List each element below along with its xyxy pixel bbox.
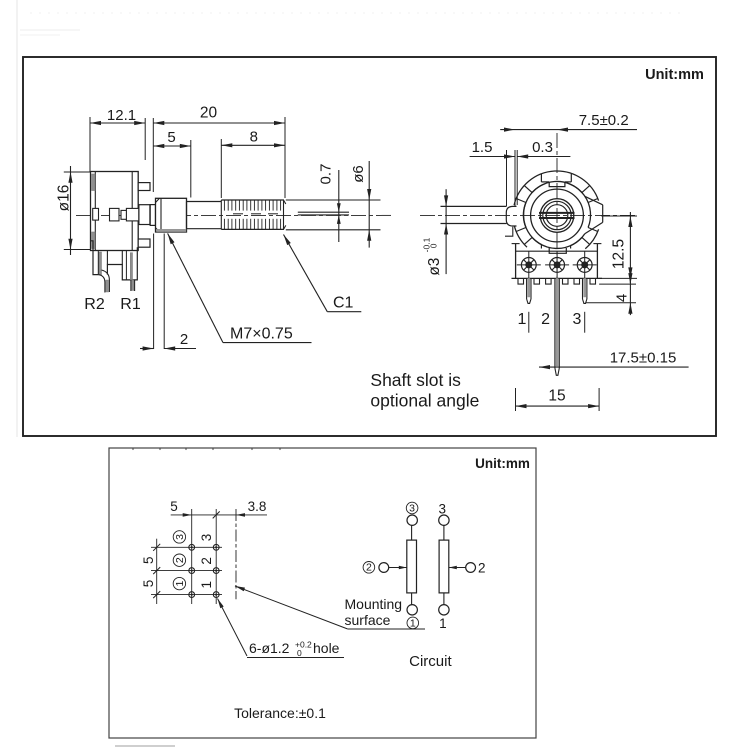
bushing bottom shading bbox=[157, 229, 187, 232]
svg-text:2: 2 bbox=[541, 311, 550, 328]
svg-text:0.3: 0.3 bbox=[532, 139, 553, 156]
drawing frame bottom panel bbox=[109, 448, 536, 738]
step below bump bbox=[505, 227, 513, 236]
dim 7.5 bbox=[500, 129, 637, 131]
pin R2 gray bar bbox=[99, 252, 102, 275]
svg-text:C1: C1 bbox=[333, 295, 354, 312]
svg-text:0: 0 bbox=[297, 648, 302, 658]
svg-text:3: 3 bbox=[438, 502, 446, 517]
rod phi3 bbox=[441, 205, 507, 207]
pcb column centerline 1 bbox=[191, 509, 193, 604]
dim 5 bbox=[153, 145, 191, 147]
rivets bbox=[517, 251, 597, 278]
dim phi16 bbox=[70, 166, 72, 255]
svg-text:12.5: 12.5 bbox=[611, 239, 628, 269]
knurl end chamfer bbox=[283, 200, 285, 229]
top tab walls and floor bbox=[540, 174, 542, 182]
dim 4 bbox=[629, 276, 631, 316]
svg-text:5: 5 bbox=[167, 129, 175, 146]
svg-text:3.8: 3.8 bbox=[248, 499, 267, 514]
svg-text:3: 3 bbox=[409, 502, 415, 514]
svg-text:2: 2 bbox=[199, 557, 214, 565]
interior hub small rects bbox=[110, 208, 120, 221]
svg-text:4: 4 bbox=[614, 294, 631, 302]
pin R1 gray bar bbox=[130, 253, 132, 280]
svg-text:M7×0.75: M7×0.75 bbox=[230, 326, 293, 343]
svg-text:2: 2 bbox=[180, 331, 188, 348]
shaft diameter extension lines bbox=[286, 199, 381, 201]
bushing chamfers bbox=[156, 198, 160, 202]
leader M7x0.75 bbox=[168, 233, 223, 342]
left small tab bbox=[93, 208, 99, 220]
svg-text:Tolerance:±0.1: Tolerance:±0.1 bbox=[234, 705, 326, 721]
potentiometer body side view bbox=[91, 172, 139, 251]
faint artifact bottom-left text smudge bbox=[115, 745, 175, 747]
dim 8 bbox=[221, 144, 285, 146]
svg-text:optional angle: optional angle bbox=[370, 391, 479, 411]
svg-text:5: 5 bbox=[141, 556, 156, 564]
svg-text:R2: R2 bbox=[84, 296, 105, 313]
horizontal centerline front view bbox=[420, 214, 637, 216]
body seam left bbox=[94, 172, 96, 251]
svg-text:surface: surface bbox=[345, 612, 391, 628]
circled pin numbers pcb bbox=[173, 531, 185, 543]
wiper 2 right bbox=[466, 563, 476, 573]
top small tab rect bbox=[549, 182, 565, 187]
dim phi6 bbox=[368, 161, 370, 248]
drawing frame top panel bbox=[23, 57, 716, 436]
mounting surface label and leader bbox=[235, 586, 348, 629]
inner concentric circles bbox=[531, 189, 584, 242]
svg-text:3: 3 bbox=[199, 534, 214, 542]
circled 3 circuit bbox=[406, 502, 418, 514]
bottom small tab bbox=[549, 248, 566, 253]
svg-text:1: 1 bbox=[410, 617, 416, 629]
lower-right lug bbox=[138, 239, 150, 247]
circuit terminals right resistor bbox=[439, 515, 449, 525]
extension lines front top bbox=[506, 150, 508, 206]
svg-text:12.1: 12.1 bbox=[107, 107, 136, 124]
left bump bbox=[506, 206, 516, 226]
svg-text:3: 3 bbox=[573, 311, 582, 328]
knurl middle hidden dashes bbox=[233, 213, 243, 215]
svg-text:5: 5 bbox=[141, 580, 156, 588]
dim 0.3 bbox=[517, 156, 570, 158]
svg-text:2: 2 bbox=[174, 557, 186, 563]
shaft hub inner rect bbox=[126, 208, 138, 221]
svg-text:hole: hole bbox=[313, 640, 340, 656]
svg-text:7.5±0.2: 7.5±0.2 bbox=[579, 112, 629, 129]
wiper 2 left bbox=[363, 562, 375, 574]
serration top line bbox=[512, 277, 603, 279]
svg-text:17.5±0.15: 17.5±0.15 bbox=[610, 350, 677, 367]
extension lines top dims bbox=[89, 117, 91, 172]
dim 17.5 bbox=[539, 366, 689, 368]
faint artifact dots below top box bbox=[132, 448, 281, 450]
bottom tab walls bbox=[540, 245, 542, 249]
svg-text:-0.1: -0.1 bbox=[422, 237, 432, 252]
hole callout leader bbox=[218, 599, 248, 657]
pin 3 front bbox=[582, 278, 584, 299]
faint artifact left edge line bbox=[16, 0, 18, 437]
bushing M7 threaded section bbox=[156, 198, 187, 232]
svg-text:Unit:mm: Unit:mm bbox=[645, 67, 704, 83]
centerline side view bbox=[76, 214, 394, 216]
svg-text:1: 1 bbox=[199, 581, 214, 589]
pin R1 lead bbox=[130, 280, 132, 291]
svg-text:Shaft slot is: Shaft slot is bbox=[370, 370, 461, 390]
svg-text:Unit:mm: Unit:mm bbox=[475, 456, 530, 471]
vertical centerline front view bbox=[556, 133, 558, 290]
svg-text:8: 8 bbox=[250, 129, 258, 146]
boss step 1 bbox=[139, 205, 150, 225]
svg-text:ø16: ø16 bbox=[55, 185, 72, 212]
inner ring arcs bbox=[569, 184, 582, 193]
dim 12.1 bbox=[90, 122, 145, 124]
dim 20 bbox=[153, 122, 285, 124]
svg-text:2: 2 bbox=[366, 562, 372, 574]
svg-text:1: 1 bbox=[518, 311, 527, 328]
collar washer bbox=[150, 205, 155, 226]
right lug bbox=[585, 196, 603, 205]
svg-text:6-ø1.2: 6-ø1.2 bbox=[249, 640, 290, 656]
svg-text:2: 2 bbox=[478, 560, 486, 575]
left vertical dim line bbox=[156, 539, 158, 604]
mounting surface line bbox=[235, 509, 237, 599]
serration teeth bbox=[518, 278, 596, 284]
circuit terminals left resistor bbox=[407, 515, 417, 525]
svg-text:5: 5 bbox=[170, 499, 178, 514]
dim 5 horizontal top bbox=[171, 514, 267, 516]
legs bracket bbox=[91, 241, 102, 275]
shaft smooth section bbox=[187, 201, 222, 203]
front view outer circle arcs bbox=[514, 171, 599, 205]
svg-text:20: 20 bbox=[200, 105, 218, 122]
knurl stripes bbox=[224, 200, 280, 229]
svg-text:1.5: 1.5 bbox=[472, 139, 493, 156]
svg-text:Circuit: Circuit bbox=[409, 653, 452, 670]
dim 15 bbox=[516, 405, 600, 407]
pin 2 front (long) bbox=[554, 278, 556, 368]
circuit resistor left bbox=[407, 540, 417, 593]
body gray strip top-left bbox=[92, 174, 95, 191]
circuit resistor right bbox=[439, 540, 449, 593]
bushing seam bbox=[160, 198, 162, 232]
dim 12.5 bbox=[629, 212, 631, 283]
dim phi3 bbox=[445, 189, 447, 274]
dim 1.5 bbox=[470, 156, 515, 158]
crown side tab walls bbox=[588, 199, 598, 203]
dim 0.7 bbox=[338, 170, 340, 242]
faint artifact dotted line top bbox=[30, 12, 680, 14]
pcb column centerline 2 bbox=[215, 509, 217, 604]
front view lower body bbox=[515, 244, 517, 279]
svg-text:R1: R1 bbox=[120, 296, 141, 313]
svg-text:Mounting: Mounting bbox=[345, 596, 403, 612]
slot projection lines bbox=[298, 211, 349, 213]
svg-text:ø3: ø3 bbox=[426, 258, 443, 276]
pcb holes bbox=[189, 544, 219, 597]
pin R2 hook and lead bbox=[102, 270, 110, 292]
knurled section bbox=[221, 199, 284, 201]
body gray strip bottom-left bbox=[92, 232, 95, 249]
svg-text:1: 1 bbox=[439, 616, 447, 631]
circled 1 circuit bbox=[407, 617, 419, 629]
svg-text:3: 3 bbox=[174, 534, 186, 540]
svg-text:1: 1 bbox=[174, 581, 186, 587]
pcb row lines bbox=[151, 546, 222, 548]
body seam right bbox=[131, 172, 133, 251]
svg-text:0.7: 0.7 bbox=[318, 164, 335, 185]
shaft slot bar bbox=[539, 212, 575, 214]
pin 1 front bbox=[526, 278, 528, 299]
leader C1 bbox=[284, 235, 328, 312]
dim 2 bbox=[153, 234, 155, 350]
svg-text:15: 15 bbox=[548, 388, 565, 405]
svg-text:ø6: ø6 bbox=[350, 165, 367, 183]
upper-right lug bbox=[138, 183, 150, 191]
